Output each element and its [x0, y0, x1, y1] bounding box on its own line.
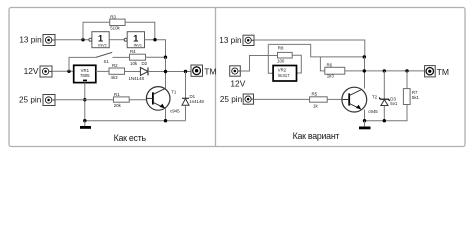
wire R7 bottom to rail: [365, 105, 408, 121]
connector "12V": [24, 66, 52, 77]
wire 12V to VR1: [52, 70, 74, 72]
connector "13 pin" (right): [219, 35, 254, 45]
wire 25pin to R5: [254, 98, 310, 100]
connector "12V" (right): [230, 66, 246, 89]
inverter U1 INV2: [89, 32, 109, 48]
connector TM (right): [425, 66, 449, 77]
svg-text:1k3: 1k3: [327, 73, 335, 78]
svg-text:VR2: VR2: [278, 68, 287, 73]
node D3-rail junction: [383, 119, 386, 122]
svg-text:R4: R4: [130, 49, 136, 54]
diode D1 1n4148: [182, 94, 204, 105]
zener D3 5v1: [379, 97, 398, 106]
node D3 junction: [383, 69, 386, 72]
node emitter-rail junction (right): [363, 119, 366, 122]
svg-text:TM: TM: [437, 67, 449, 77]
svg-text:100: 100: [277, 58, 285, 63]
node R4-bus junction: [164, 56, 167, 59]
svg-text:c945: c945: [368, 109, 378, 114]
wire 25pin to R1: [55, 99, 114, 101]
resistor R6 1k3: [325, 62, 345, 78]
diode D2 1N4148: [129, 61, 149, 81]
resistor R3 510k: [110, 14, 125, 30]
svg-text:R6: R6: [327, 62, 333, 67]
connector "25 pin": [19, 95, 55, 106]
wire switch to R4: [112, 56, 129, 58]
wire T2 emitter to rail: [364, 110, 366, 121]
connector "25 pin" (right): [220, 94, 254, 104]
wire D3 bottom to rail: [383, 106, 385, 121]
svg-text:13 pin: 13 pin: [19, 36, 42, 45]
node A junction: [81, 38, 84, 41]
connector "13 pin": [19, 35, 55, 46]
node emitter-rail junction: [164, 119, 167, 122]
wire R1 to T1 base: [129, 99, 147, 101]
wire R4 to bus: [146, 56, 166, 58]
wire R8 to VR2 output: [292, 55, 301, 73]
node 25pin junction: [83, 98, 86, 101]
svg-text:R1: R1: [114, 92, 120, 97]
connector TM: [191, 65, 217, 76]
wire R3 loop right side: [125, 22, 155, 39]
svg-text:4k3: 4k3: [111, 75, 119, 80]
svg-text:TM: TM: [204, 66, 216, 76]
wire 13pin to INV2: [55, 39, 89, 41]
svg-text:25 pin: 25 pin: [220, 95, 243, 104]
wire INV1 output to bus: [145, 40, 166, 58]
wire R6 to TM row: [345, 70, 425, 72]
wire T1 emitter to rail: [165, 108, 167, 120]
svg-text:20k: 20k: [114, 103, 122, 108]
resistor R8 100: [277, 46, 292, 64]
regulator VR2 lm317: [273, 66, 296, 82]
svg-text:R5: R5: [312, 92, 318, 97]
node rail-ground junction: [83, 119, 86, 122]
svg-text:1N4148: 1N4148: [129, 76, 145, 81]
svg-text:R3: R3: [110, 14, 116, 19]
svg-text:13 pin: 13 pin: [219, 36, 242, 45]
resistor R5 1k: [310, 92, 328, 109]
svg-text:25 pin: 25 pin: [19, 96, 42, 105]
svg-text:7805: 7805: [80, 73, 90, 78]
node R7 junction: [405, 69, 408, 72]
node adj-bus junction: [363, 55, 366, 58]
switch S1 lever: [96, 52, 112, 63]
wire VR1 out to R2: [96, 70, 109, 72]
svg-text:1n4148: 1n4148: [189, 99, 204, 104]
svg-text:5v1: 5v1: [390, 101, 398, 106]
svg-text:Как вариант: Как вариант: [293, 131, 340, 141]
wire R7 top: [406, 71, 408, 89]
bus wire down to collector: [165, 57, 167, 88]
inverter U2 INV1: [124, 32, 144, 48]
wire D1 top: [185, 72, 187, 99]
svg-text:INV1: INV1: [134, 44, 142, 48]
svg-text:R8: R8: [278, 46, 284, 51]
svg-text:Как есть: Как есть: [114, 133, 147, 143]
ground (right): [359, 121, 371, 130]
svg-text:D2: D2: [142, 61, 148, 66]
resistor R1 20k: [114, 92, 130, 108]
wire VR2 input vertical: [268, 44, 273, 73]
wire loop to R6: [320, 57, 324, 71]
wire 12V up to switch: [69, 57, 96, 71]
svg-text:lm317: lm317: [278, 73, 290, 78]
svg-text:S1: S1: [104, 59, 110, 64]
resistor R7 5k1: [403, 89, 419, 105]
svg-text:10k: 10k: [130, 61, 138, 66]
node R6-bus junction: [363, 69, 366, 72]
ground rail wire: [85, 120, 186, 122]
wire R3 feedback loop: [83, 22, 110, 39]
transistor T1 c945: [146, 87, 180, 114]
wire D1 bottom to rail: [185, 105, 187, 121]
svg-text:12V: 12V: [24, 66, 39, 76]
wire R2 to D2: [125, 71, 141, 73]
wire D2 to TM: [148, 71, 191, 73]
svg-text:R2: R2: [112, 63, 118, 68]
ground: [80, 121, 91, 129]
svg-text:c945: c945: [170, 109, 180, 114]
bus wire down: [364, 57, 366, 89]
node 12V junction: [67, 70, 70, 73]
svg-text:INV2: INV2: [98, 44, 106, 48]
resistor R2 4k3: [109, 63, 125, 80]
regulator VR1 7805: [74, 65, 96, 82]
wire 13pin to bus: [254, 40, 365, 57]
svg-text:510k: 510k: [110, 26, 120, 31]
wire adj loop top: [268, 44, 364, 57]
wire VR1 gnd down: [84, 83, 86, 121]
wire R5 to T2 base: [327, 98, 343, 100]
transistor T2 c945: [342, 87, 378, 114]
wire INV2 to INV1: [109, 39, 124, 41]
svg-text:12V: 12V: [230, 78, 245, 88]
svg-text:T2: T2: [372, 95, 378, 100]
node D1 junction: [184, 70, 187, 73]
node B junction: [153, 38, 156, 41]
svg-text:1k: 1k: [313, 103, 318, 108]
wire D3 top: [383, 71, 385, 99]
svg-text:5k1: 5k1: [412, 95, 420, 100]
svg-text:T1: T1: [171, 89, 177, 94]
resistor R4 10k: [130, 49, 146, 66]
node collector junction: [164, 70, 167, 73]
wire 12V up to R8 row: [240, 56, 277, 72]
